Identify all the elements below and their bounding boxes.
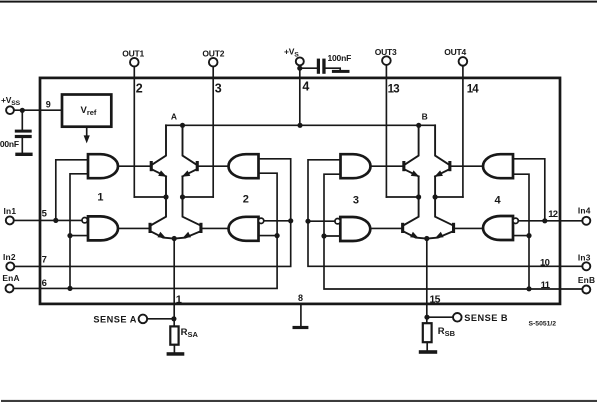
- svg-text:OUT1: OUT1: [122, 49, 144, 59]
- svg-text:OUT4: OUT4: [444, 47, 466, 57]
- svg-text:In4: In4: [578, 205, 591, 215]
- svg-text:SENSE B: SENSE B: [464, 313, 508, 323]
- svg-text:3: 3: [215, 82, 222, 96]
- svg-text:S-5051/2: S-5051/2: [529, 320, 557, 327]
- svg-text:A: A: [171, 112, 177, 122]
- svg-text:13: 13: [388, 83, 400, 95]
- svg-text:1: 1: [97, 192, 103, 204]
- svg-text:8: 8: [298, 293, 303, 303]
- svg-text:100nF: 100nF: [0, 139, 19, 149]
- svg-text:In1: In1: [4, 206, 17, 216]
- svg-text:7: 7: [42, 254, 47, 265]
- svg-text:4: 4: [494, 194, 501, 206]
- svg-text:SENSE A: SENSE A: [93, 314, 136, 324]
- svg-text:OUT2: OUT2: [202, 49, 224, 59]
- svg-text:In3: In3: [578, 253, 591, 263]
- svg-text:EnA: EnA: [2, 273, 19, 283]
- svg-text:+VS: +VS: [284, 47, 299, 59]
- svg-text:9: 9: [46, 99, 51, 109]
- svg-text:OUT3: OUT3: [375, 47, 397, 57]
- svg-text:1: 1: [176, 294, 182, 306]
- svg-text:RSB: RSB: [438, 326, 456, 338]
- svg-text:In2: In2: [3, 252, 16, 262]
- svg-text:15: 15: [429, 293, 440, 305]
- svg-text:6: 6: [42, 278, 47, 289]
- svg-text:10: 10: [540, 257, 550, 268]
- svg-text:4: 4: [302, 79, 309, 93]
- svg-text:11: 11: [541, 280, 551, 291]
- svg-text:+VSS: +VSS: [1, 95, 21, 107]
- svg-text:RSA: RSA: [181, 327, 199, 339]
- svg-text:Vref: Vref: [81, 105, 97, 117]
- svg-text:B: B: [422, 112, 428, 122]
- svg-text:14: 14: [467, 83, 480, 95]
- svg-text:2: 2: [243, 194, 249, 206]
- svg-text:EnB: EnB: [578, 275, 595, 285]
- svg-text:3: 3: [353, 194, 359, 206]
- svg-text:100nF: 100nF: [328, 53, 352, 63]
- svg-text:5: 5: [42, 208, 48, 219]
- svg-text:12: 12: [548, 209, 558, 220]
- svg-text:2: 2: [136, 82, 143, 96]
